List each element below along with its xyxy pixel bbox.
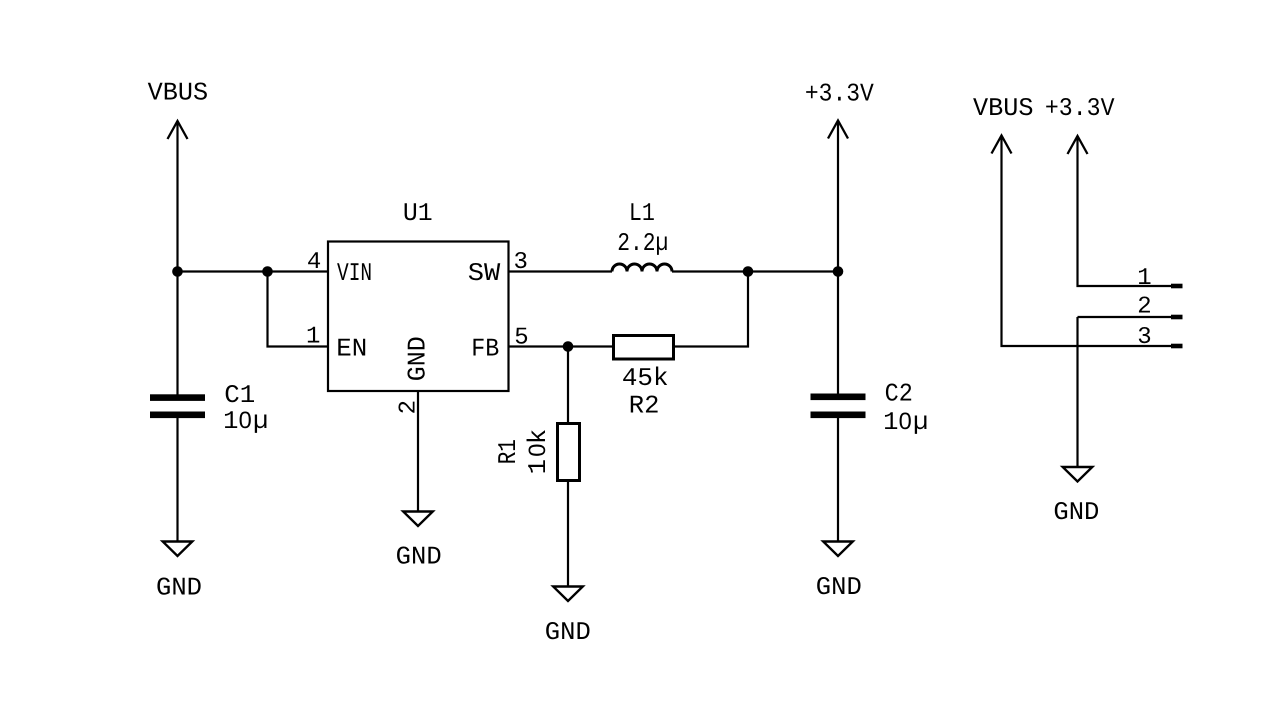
svg-text:2: 2 [1137, 294, 1151, 321]
svg-text:GND: GND [816, 573, 862, 602]
svg-text:µ: µ [913, 408, 928, 437]
svg-text:3: 3 [1137, 324, 1151, 351]
svg-text:R1: R1 [494, 439, 523, 464]
svg-text:+3.3V: +3.3V [1045, 94, 1115, 123]
svg-text:k: k [524, 429, 553, 444]
svg-text:+3.3V: +3.3V [805, 80, 875, 109]
svg-text:GND: GND [1053, 498, 1099, 527]
svg-text:FB: FB [471, 335, 499, 364]
svg-text:L1: L1 [629, 199, 655, 228]
svg-text:GND: GND [396, 542, 442, 571]
svg-text:U1: U1 [403, 199, 433, 228]
svg-text:0: 0 [899, 409, 912, 435]
svg-text:1: 1 [883, 408, 898, 437]
svg-text:EN: EN [336, 335, 367, 364]
svg-text:µ: µ [253, 407, 268, 436]
svg-text:1: 1 [1137, 265, 1151, 292]
svg-text:VBUS: VBUS [973, 94, 1034, 123]
svg-text:GND: GND [545, 618, 591, 647]
svg-text:VIN: VIN [337, 259, 372, 288]
svg-text:R2: R2 [629, 391, 660, 420]
svg-text:GND: GND [404, 336, 433, 381]
svg-text:0: 0 [239, 408, 252, 434]
svg-text:1: 1 [223, 407, 238, 436]
svg-text:SW: SW [468, 259, 501, 288]
svg-text:4: 4 [307, 249, 321, 276]
svg-text:C2: C2 [885, 380, 913, 409]
svg-text:45k: 45k [622, 364, 669, 393]
svg-text:GND: GND [156, 574, 202, 603]
svg-text:0: 0 [525, 444, 551, 457]
svg-text:VBUS: VBUS [148, 79, 209, 108]
svg-text:1: 1 [524, 459, 553, 474]
svg-text:C1: C1 [224, 381, 255, 410]
svg-text:2.2µ: 2.2µ [617, 229, 668, 258]
svg-text:5: 5 [514, 325, 528, 352]
svg-text:3: 3 [513, 249, 527, 276]
svg-text:2: 2 [395, 400, 422, 414]
svg-text:1: 1 [306, 324, 320, 351]
